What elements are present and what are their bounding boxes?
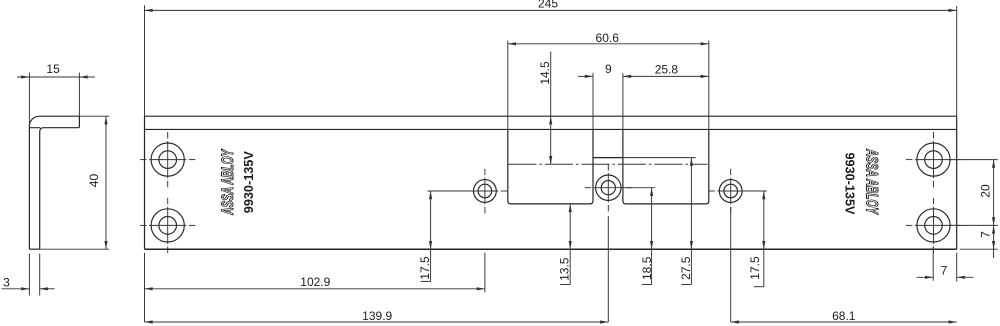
svg-text:17.5: 17.5 (418, 256, 432, 280)
svg-text:13.5: 13.5 (558, 257, 572, 281)
svg-text:ASSA ABLOY: ASSA ABLOY (863, 148, 881, 215)
svg-text:18.5: 18.5 (640, 256, 654, 280)
svg-text:17.5: 17.5 (748, 256, 762, 280)
svg-text:25.8: 25.8 (655, 63, 679, 77)
svg-text:7: 7 (941, 264, 948, 278)
svg-text:7: 7 (979, 231, 993, 238)
svg-text:40: 40 (87, 174, 101, 188)
svg-text:9930-135V: 9930-135V (241, 151, 256, 213)
svg-text:ASSA ABLOY: ASSA ABLOY (219, 148, 237, 215)
svg-text:14.5: 14.5 (538, 61, 552, 85)
svg-text:27.5: 27.5 (679, 256, 693, 280)
svg-text:60.6: 60.6 (596, 31, 620, 45)
svg-text:9930-135V: 9930-135V (843, 153, 858, 215)
svg-text:245: 245 (538, 0, 558, 11)
svg-text:9: 9 (605, 62, 612, 76)
svg-text:20: 20 (979, 184, 993, 198)
svg-text:15: 15 (46, 62, 60, 76)
svg-text:102.9: 102.9 (300, 275, 330, 289)
svg-text:68.1: 68.1 (832, 309, 856, 323)
svg-text:3: 3 (3, 276, 10, 290)
svg-text:139.9: 139.9 (362, 309, 392, 323)
